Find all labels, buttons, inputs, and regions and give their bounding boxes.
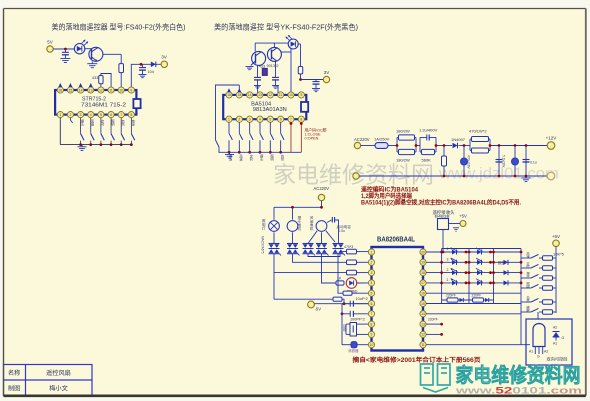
svg-text:摆头电机: 摆头电机 bbox=[297, 215, 302, 231]
svg-text:+12V: +12V bbox=[546, 136, 557, 141]
svg-text:消振器: 消振器 bbox=[348, 348, 359, 353]
svg-text:制图: 制图 bbox=[8, 385, 20, 393]
svg-text:3V: 3V bbox=[161, 55, 167, 60]
svg-text:摆头: 摆头 bbox=[259, 153, 263, 161]
svg-text:8: 8 bbox=[300, 118, 302, 122]
svg-text:5V: 5V bbox=[47, 40, 53, 45]
svg-text:3: 3 bbox=[80, 113, 82, 117]
svg-text:-5V: -5V bbox=[315, 307, 322, 312]
svg-text:15: 15 bbox=[69, 88, 73, 92]
svg-text:BA5104(1)(2)脚悬空拨,对应主控IC为BA8206: BA5104(1)(2)脚悬空拨,对应主控IC为BA8206BA4L的D4,D5… bbox=[361, 199, 521, 207]
svg-text:6: 6 bbox=[110, 113, 112, 117]
svg-text:梅小文: 梅小文 bbox=[49, 385, 68, 393]
svg-text:100PF*2: 100PF*2 bbox=[350, 318, 365, 322]
svg-text:1: 1 bbox=[371, 250, 373, 254]
svg-text:220PF: 220PF bbox=[446, 294, 456, 298]
svg-text:220PF: 220PF bbox=[472, 294, 482, 298]
svg-text:9: 9 bbox=[371, 333, 373, 337]
svg-text:5: 5 bbox=[100, 113, 102, 117]
svg-text:18: 18 bbox=[421, 271, 425, 275]
svg-text:13: 13 bbox=[258, 93, 262, 97]
svg-text:12: 12 bbox=[99, 88, 103, 92]
svg-text:MAC97A6*5: MAC97A6*5 bbox=[261, 236, 265, 254]
svg-text:风扇电机: 风扇电机 bbox=[309, 216, 314, 231]
svg-text:12: 12 bbox=[268, 93, 272, 97]
svg-text:2: 2 bbox=[238, 118, 240, 122]
svg-text:0:OPEN: 0:OPEN bbox=[305, 137, 319, 141]
svg-text:7: 7 bbox=[290, 118, 292, 122]
svg-text:1: 1 bbox=[447, 278, 449, 282]
svg-text:10K*5: 10K*5 bbox=[553, 252, 565, 257]
svg-text:AC220V: AC220V bbox=[314, 186, 330, 191]
svg-text:0.1u: 0.1u bbox=[530, 161, 537, 165]
svg-text:9: 9 bbox=[300, 93, 302, 97]
svg-text:AC220V: AC220V bbox=[354, 137, 370, 142]
svg-text:定时: 定时 bbox=[249, 153, 253, 161]
svg-text:10: 10 bbox=[289, 93, 293, 97]
svg-text:8: 8 bbox=[371, 322, 373, 326]
svg-text:G: G bbox=[537, 355, 540, 359]
svg-text:433: 433 bbox=[259, 65, 265, 69]
svg-text:1: 1 bbox=[59, 113, 61, 117]
svg-text:11: 11 bbox=[109, 88, 113, 92]
svg-text:2: 2 bbox=[371, 261, 373, 265]
svg-text:180/2W: 180/2W bbox=[396, 158, 410, 163]
svg-text:A2: A2 bbox=[544, 350, 548, 354]
svg-text:名称: 名称 bbox=[8, 369, 20, 377]
svg-text:3: 3 bbox=[249, 118, 251, 122]
svg-text:4: 4 bbox=[259, 118, 261, 122]
svg-text:4: 4 bbox=[447, 247, 449, 251]
svg-text:11: 11 bbox=[279, 93, 283, 97]
svg-text:摘自<家电维修>2001年合订本上下册566页: 摘自<家电维修>2001年合订本上下册566页 bbox=[353, 356, 481, 364]
svg-text:自然: 自然 bbox=[525, 295, 529, 303]
svg-text:20: 20 bbox=[421, 250, 425, 254]
svg-text:4: 4 bbox=[90, 113, 92, 117]
svg-text:14: 14 bbox=[421, 312, 425, 316]
svg-text:10: 10 bbox=[119, 88, 123, 92]
svg-text:7: 7 bbox=[371, 312, 373, 316]
svg-text:220PF: 220PF bbox=[428, 318, 438, 322]
svg-text:16: 16 bbox=[227, 93, 231, 97]
svg-text:自然: 自然 bbox=[280, 153, 284, 161]
svg-text:470u/16V: 470u/16V bbox=[467, 155, 471, 170]
svg-text:照明灯: 照明灯 bbox=[261, 218, 266, 230]
svg-text:6: 6 bbox=[280, 118, 282, 122]
svg-text:自然: 自然 bbox=[120, 118, 124, 126]
svg-text:470/1W*2: 470/1W*2 bbox=[469, 129, 487, 134]
svg-text:+5V: +5V bbox=[459, 214, 467, 219]
svg-text:+5V: +5V bbox=[552, 234, 560, 239]
svg-text:A1: A1 bbox=[529, 350, 533, 354]
svg-text:STR715-2: STR715-2 bbox=[82, 96, 106, 102]
svg-text:家电维修资料网: 家电维修资料网 bbox=[456, 363, 581, 387]
svg-text:14: 14 bbox=[248, 93, 252, 97]
svg-text:13: 13 bbox=[89, 88, 93, 92]
svg-text:睡眠: 睡眠 bbox=[525, 305, 529, 313]
svg-text:3: 3 bbox=[371, 271, 373, 275]
svg-text:9813A01A3N: 9813A01A3N bbox=[253, 107, 287, 113]
svg-text:11: 11 bbox=[421, 343, 425, 347]
svg-text:风速: 风速 bbox=[238, 154, 242, 161]
svg-text:www.jdzl01.com: www.jdzl01.com bbox=[438, 166, 559, 183]
svg-text:A2: A2 bbox=[553, 326, 557, 330]
svg-text:12: 12 bbox=[421, 333, 425, 337]
svg-text:1A/250V: 1A/250V bbox=[374, 137, 390, 142]
svg-text:10uF*2: 10uF*2 bbox=[356, 297, 368, 301]
svg-text:5: 5 bbox=[371, 292, 373, 296]
svg-text:照明: 照明 bbox=[269, 154, 273, 161]
svg-text:9013*2: 9013*2 bbox=[267, 64, 279, 68]
svg-text:遥控风扇: 遥控风扇 bbox=[46, 369, 71, 377]
svg-text:照明: 照明 bbox=[525, 282, 529, 289]
svg-text:9: 9 bbox=[130, 88, 132, 92]
svg-text:2: 2 bbox=[70, 113, 72, 117]
svg-text:风速: 风速 bbox=[525, 252, 529, 259]
svg-text:3.5u: 3.5u bbox=[338, 229, 345, 233]
svg-text:5.1V/1W: 5.1V/1W bbox=[502, 155, 506, 167]
svg-text:17: 17 bbox=[421, 281, 425, 285]
svg-text:15: 15 bbox=[421, 302, 425, 306]
svg-text:7: 7 bbox=[120, 113, 122, 117]
svg-text:13: 13 bbox=[421, 322, 425, 326]
svg-text:A1: A1 bbox=[553, 342, 557, 346]
svg-text:180/2W: 180/2W bbox=[396, 129, 410, 134]
svg-text:10: 10 bbox=[370, 343, 374, 347]
svg-text:1N4007: 1N4007 bbox=[451, 137, 466, 142]
svg-text:560K: 560K bbox=[422, 158, 432, 163]
svg-text:美的落地扇遥控 型号YK-FS40-F2F(外壳黑色): 美的落地扇遥控 型号YK-FS40-F2F(外壳黑色) bbox=[214, 23, 358, 32]
svg-text:照明: 照明 bbox=[110, 119, 114, 126]
svg-text:定时: 定时 bbox=[525, 261, 529, 269]
svg-text:1.2u/400V: 1.2u/400V bbox=[419, 128, 438, 133]
svg-text:15: 15 bbox=[237, 93, 241, 97]
svg-text:73146M1 715-2: 73146M1 715-2 bbox=[81, 103, 126, 109]
svg-text:定时: 定时 bbox=[100, 118, 104, 126]
svg-text:1: 1 bbox=[228, 118, 230, 122]
svg-text:6: 6 bbox=[371, 302, 373, 306]
svg-text:4: 4 bbox=[371, 281, 373, 285]
svg-text:14: 14 bbox=[79, 88, 83, 92]
svg-text:16: 16 bbox=[421, 292, 425, 296]
svg-text:风速: 风速 bbox=[90, 119, 94, 126]
svg-text:470*3: 470*3 bbox=[344, 245, 353, 249]
svg-text:摆头: 摆头 bbox=[80, 118, 84, 126]
svg-text:455E: 455E bbox=[342, 324, 346, 333]
svg-text:3V: 3V bbox=[324, 70, 330, 75]
svg-text:双向可控硅: 双向可控硅 bbox=[547, 356, 569, 363]
svg-text:电源: 电源 bbox=[130, 118, 134, 126]
svg-text:www.520101.com: www.520101.com bbox=[454, 386, 582, 396]
svg-text:16: 16 bbox=[58, 88, 62, 92]
svg-text:8: 8 bbox=[130, 113, 132, 117]
svg-text:433: 433 bbox=[92, 76, 98, 80]
svg-text:BA8206BA4L: BA8206BA4L bbox=[377, 237, 416, 244]
svg-text:2: 2 bbox=[447, 268, 449, 272]
svg-text:数显: 数显 bbox=[498, 260, 505, 265]
svg-text:104: 104 bbox=[148, 70, 154, 74]
svg-text:5: 5 bbox=[269, 118, 271, 122]
svg-text:3: 3 bbox=[447, 258, 449, 262]
svg-text:美的落地扇遥控器 型号:FS40-F2(外壳白色): 美的落地扇遥控器 型号:FS40-F2(外壳白色) bbox=[52, 23, 186, 32]
svg-text:19: 19 bbox=[421, 261, 425, 265]
svg-text:摆头: 摆头 bbox=[525, 271, 529, 279]
svg-text:G: G bbox=[562, 336, 565, 340]
